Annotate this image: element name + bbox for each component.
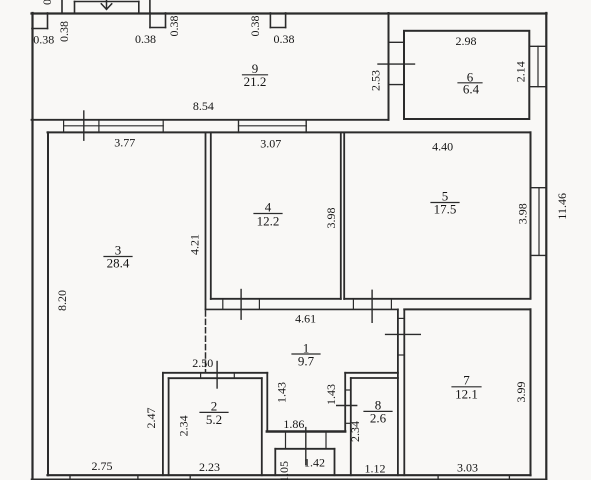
svg-text:2.50: 2.50: [192, 356, 213, 370]
svg-text:2.47: 2.47: [144, 408, 158, 429]
svg-text:3.98: 3.98: [515, 203, 529, 224]
svg-text:1.43: 1.43: [275, 382, 289, 403]
svg-text:9.7: 9.7: [298, 353, 315, 368]
svg-text:6.4: 6.4: [463, 81, 480, 96]
svg-text:12.1: 12.1: [455, 386, 478, 401]
svg-text:12.2: 12.2: [257, 214, 280, 229]
svg-text:2.98: 2.98: [456, 34, 477, 48]
svg-text:4: 4: [265, 199, 272, 214]
svg-text:1.05: 1.05: [277, 461, 291, 480]
svg-text:2.6: 2.6: [370, 410, 387, 425]
svg-text:0.38: 0.38: [167, 16, 181, 37]
svg-text:5.2: 5.2: [206, 412, 222, 427]
svg-text:8.54: 8.54: [193, 99, 214, 113]
svg-text:4.61: 4.61: [295, 311, 316, 325]
svg-text:8.20: 8.20: [55, 290, 69, 311]
svg-text:0.38: 0.38: [40, 0, 54, 5]
svg-text:4.40: 4.40: [432, 140, 453, 154]
svg-text:2.53: 2.53: [369, 70, 383, 91]
svg-text:2.23: 2.23: [199, 460, 220, 474]
svg-text:1.86: 1.86: [283, 417, 304, 431]
svg-text:11.46: 11.46: [555, 193, 569, 220]
svg-text:2.34: 2.34: [348, 421, 362, 442]
svg-text:0.38: 0.38: [135, 32, 156, 46]
svg-text:3.07: 3.07: [260, 137, 281, 151]
svg-text:0.38: 0.38: [274, 32, 295, 46]
svg-text:0.38: 0.38: [33, 33, 54, 47]
svg-text:3.99: 3.99: [514, 382, 528, 403]
svg-text:3.98: 3.98: [324, 208, 338, 229]
svg-text:2.14: 2.14: [513, 61, 527, 82]
svg-text:0.38: 0.38: [248, 16, 262, 37]
svg-text:2.34: 2.34: [177, 415, 191, 436]
svg-text:21.2: 21.2: [244, 74, 267, 89]
svg-text:17.5: 17.5: [434, 201, 457, 216]
svg-text:3.77: 3.77: [114, 136, 135, 150]
svg-text:4.21: 4.21: [188, 234, 202, 255]
svg-text:28.4: 28.4: [107, 255, 130, 270]
svg-text:1.43: 1.43: [324, 384, 338, 405]
svg-text:0.38: 0.38: [57, 21, 71, 42]
svg-text:7: 7: [463, 372, 470, 387]
svg-text:3.03: 3.03: [457, 461, 478, 475]
svg-text:1.12: 1.12: [365, 462, 386, 476]
svg-text:2.75: 2.75: [92, 459, 113, 473]
svg-text:1.42: 1.42: [304, 456, 325, 470]
